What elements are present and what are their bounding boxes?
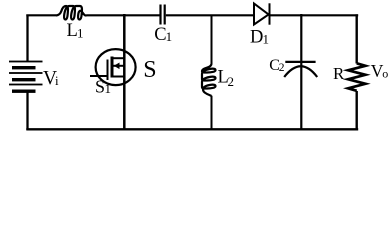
- svg-text:S: S: [95, 77, 105, 97]
- label C2: [269, 57, 285, 74]
- wire L2 vertical lower: [211, 96, 213, 130]
- resistor R: [348, 63, 365, 91]
- svg-text:1: 1: [105, 81, 112, 96]
- svg-text:S: S: [143, 57, 156, 83]
- wire C2 vertical: [300, 14, 302, 130]
- svg-text:2: 2: [228, 74, 235, 89]
- label L2: [218, 68, 235, 90]
- battery Vi: [9, 61, 43, 93]
- wire right vertical lower: [356, 91, 358, 130]
- label D1: [250, 28, 269, 48]
- svg-text:i: i: [55, 73, 59, 88]
- svg-text:R: R: [333, 64, 345, 83]
- wire L2 vertical upper: [211, 15, 213, 65]
- svg-text:1: 1: [166, 29, 173, 44]
- transistor S (MOSFET): [90, 49, 136, 85]
- wire top segment between C1 and D1: [166, 14, 255, 16]
- capacitor C1: [161, 5, 165, 25]
- svg-text:D: D: [250, 28, 263, 48]
- wire left vertical upper: [26, 15, 28, 62]
- wire top segment between D1 and right edge: [270, 14, 358, 16]
- wire left vertical lower: [26, 93, 28, 131]
- diode D1: [254, 3, 270, 24]
- wire bottom: [26, 128, 358, 130]
- label Vi: [43, 68, 59, 89]
- label S1: [95, 77, 111, 97]
- label L1: [67, 21, 84, 41]
- label C1: [154, 25, 172, 45]
- svg-text:o: o: [382, 66, 388, 80]
- wire right vertical upper: [356, 14, 358, 63]
- inductor L1: [56, 6, 87, 20]
- capacitor C2: [284, 62, 317, 77]
- wire MOSFET drain-source vertical: [123, 14, 126, 130]
- svg-text:1: 1: [77, 26, 84, 41]
- label Vo: [371, 61, 388, 81]
- wire top segment between L1 and C1: [87, 14, 160, 16]
- svg-text:2: 2: [279, 62, 285, 74]
- svg-text:1: 1: [263, 32, 270, 47]
- inductor L2: [202, 64, 216, 96]
- wire top-left segment: [26, 14, 56, 16]
